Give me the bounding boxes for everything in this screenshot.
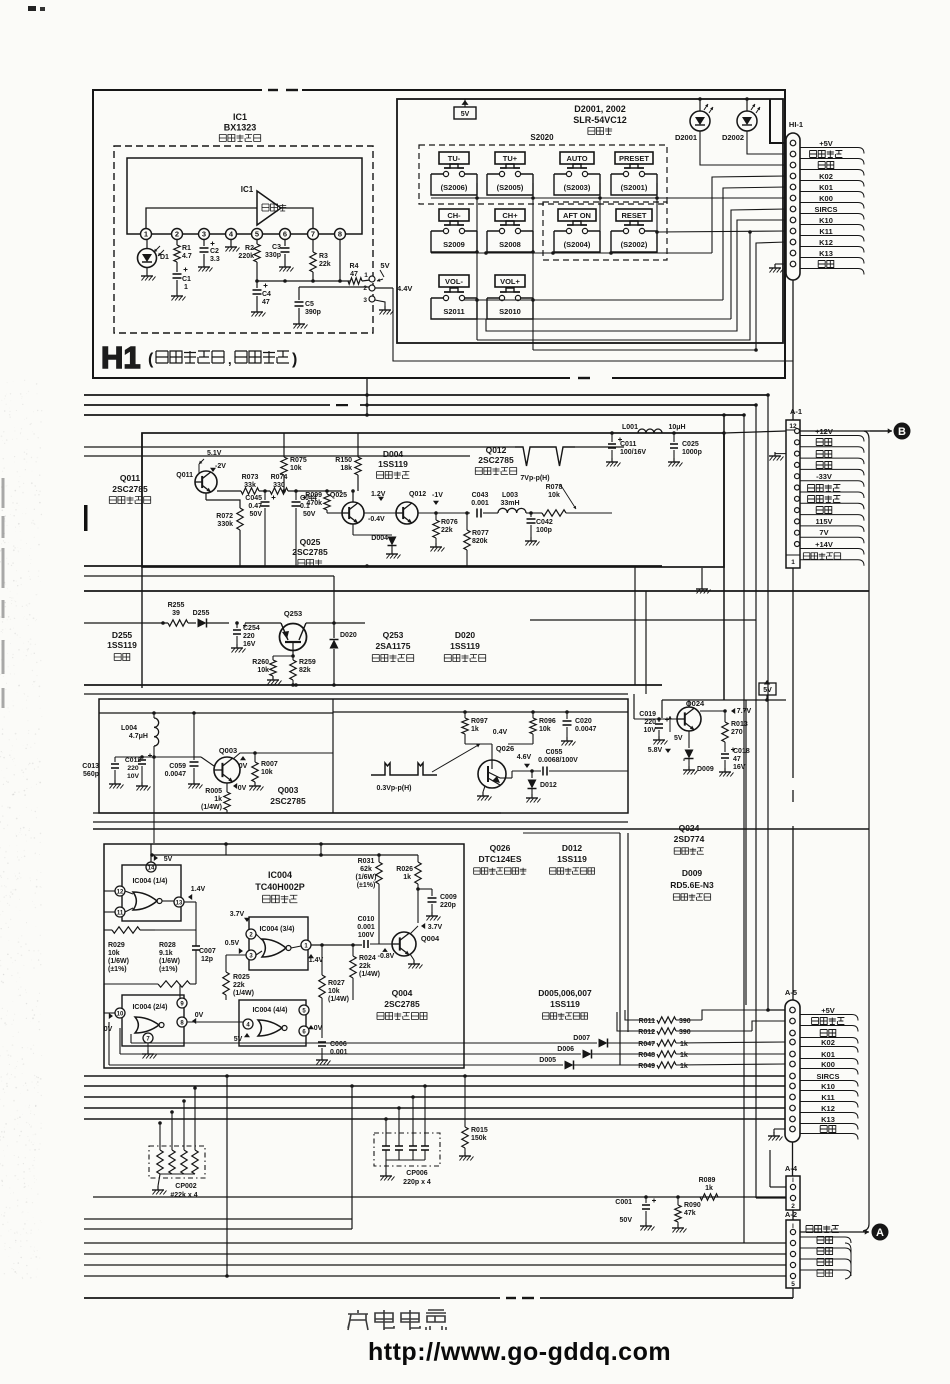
transistor Q025 [342, 502, 364, 524]
svg-text:K12: K12 [819, 238, 833, 247]
svg-text:16V: 16V [243, 641, 256, 648]
svg-text:R260: R260 [252, 659, 269, 666]
svg-text:5V: 5V [380, 261, 389, 270]
ground under C011 [611, 450, 613, 458]
svg-text:D255: D255 [112, 630, 133, 640]
svg-text:C3: C3 [272, 244, 281, 251]
wire LED D2001 to connector pin3 [700, 131, 786, 165]
ground under C012 [141, 766, 143, 782]
LED D2002 [737, 111, 757, 131]
node A circle [872, 1224, 889, 1241]
svg-text:(1/6W): (1/6W) [159, 958, 180, 965]
svg-text:470k: 470k [306, 500, 322, 507]
wire riser K02 [712, 176, 786, 253]
svg-text:10k: 10k [290, 465, 302, 472]
wire R4 to pin1 [362, 280, 370, 281]
svg-text:100/16V: 100/16V [620, 449, 646, 456]
wire Q003 collector [232, 757, 234, 759]
wire A-2 bottom [792, 1288, 794, 1298]
page border noise [28, 6, 36, 11]
svg-text:47: 47 [350, 271, 358, 278]
ground pin4 [230, 240, 232, 243]
button VOL+ [495, 275, 525, 287]
svg-text:C4: C4 [262, 291, 271, 298]
svg-text:47: 47 [733, 756, 741, 763]
svg-text:10k: 10k [261, 769, 273, 776]
svg-text:R255: R255 [168, 602, 185, 609]
wire VOL body bottom [477, 318, 731, 320]
extra bus taps left [84, 1087, 195, 1089]
svg-text:(1/4W): (1/4W) [233, 990, 254, 997]
svg-text:Q011: Q011 [176, 472, 193, 479]
wire R078 out [566, 512, 612, 514]
svg-text:L003: L003 [502, 492, 518, 499]
resistor R005 [226, 783, 228, 792]
wire x768b into A-4 pin1 [769, 1150, 771, 1187]
svg-text:1k: 1k [680, 1041, 688, 1048]
svg-text:2SC2785: 2SC2785 [270, 796, 306, 806]
svg-text:(1/4W): (1/4W) [328, 996, 349, 1003]
button AFT ON [558, 209, 596, 221]
svg-text:(S2001): (S2001) [621, 183, 648, 192]
CP006 bottom join [386, 1159, 425, 1161]
svg-text:A: A [876, 1227, 884, 1239]
svg-text:D007: D007 [573, 1035, 590, 1042]
resistor R007 [253, 751, 257, 755]
voltage 7.7V [731, 708, 735, 714]
voltage 0V emitter [233, 783, 237, 789]
wire column4 vertical [656, 183, 658, 252]
connector HI-1 pins [790, 140, 796, 146]
svg-text:9.1k: 9.1k [159, 950, 173, 957]
svg-text:Q004: Q004 [392, 988, 413, 998]
button TU+ [495, 152, 525, 164]
svg-text:-1V: -1V [432, 492, 443, 499]
5V up arrow [669, 716, 671, 732]
connector A-5 pins [790, 1007, 796, 1013]
svg-text:Q253: Q253 [284, 609, 302, 618]
svg-text:R089: R089 [699, 1177, 716, 1184]
wire R026 bottom to C009 [418, 888, 432, 890]
svg-text:1000p: 1000p [682, 449, 702, 456]
svg-text:10k: 10k [257, 667, 269, 674]
svg-text:10: 10 [117, 1012, 124, 1018]
svg-text:0.0047: 0.0047 [575, 726, 597, 733]
svg-text:R049: R049 [638, 1063, 655, 1070]
svg-text:1: 1 [144, 230, 148, 239]
gate IC004 2/4 [122, 995, 184, 1046]
bottom rail [84, 1297, 793, 1299]
wire x744 into A-2 beifen [743, 1242, 745, 1243]
wire amp input [146, 208, 257, 228]
svg-text:S2010: S2010 [499, 307, 521, 316]
svg-text:R024: R024 [359, 955, 376, 962]
svg-text:4.7μH: 4.7μH [129, 733, 148, 740]
svg-text:1k: 1k [680, 1052, 688, 1059]
bus K10 [84, 1085, 785, 1087]
svg-text:0.001: 0.001 [357, 924, 375, 931]
waveform 0.3Vpp [371, 763, 437, 775]
svg-text:330p: 330p [265, 252, 281, 259]
svg-text:S2011: S2011 [443, 307, 464, 316]
svg-text:R026: R026 [396, 866, 413, 873]
svg-text:L004: L004 [121, 725, 137, 732]
wire Q026 out [500, 777, 512, 779]
wire Q025 base [327, 512, 342, 514]
wire C5 to pin2 [299, 286, 370, 288]
waveform sync pulses [515, 447, 575, 466]
svg-text:R015: R015 [471, 1127, 488, 1134]
svg-text:0.0047: 0.0047 [165, 771, 187, 778]
ground under C059 [193, 768, 195, 780]
svg-text:R259: R259 [299, 659, 316, 666]
svg-text:330k: 330k [217, 521, 233, 528]
svg-text:220k: 220k [238, 253, 254, 260]
svg-text:(1/4W): (1/4W) [201, 804, 222, 811]
svg-text:D004: D004 [371, 535, 388, 542]
svg-text:S2020: S2020 [530, 133, 554, 142]
svg-text:5V: 5V [234, 1036, 243, 1043]
svg-text:1k: 1k [705, 1185, 713, 1192]
wire rail over Q253 [245, 622, 281, 624]
svg-text:RESET: RESET [621, 211, 646, 220]
ground under C3 [284, 254, 286, 263]
svg-text:R074: R074 [271, 474, 288, 481]
svg-text:Q004: Q004 [421, 934, 440, 943]
gate IC004 1/4 [122, 865, 181, 921]
gate IC004 3/4 [249, 917, 308, 970]
rail y712 right part [333, 711, 628, 713]
bus C001 line [93, 1196, 786, 1198]
resistor R011 row [625, 1010, 655, 1020]
vertical feed x756 [755, 405, 757, 1198]
svg-text:10k: 10k [108, 950, 120, 957]
svg-text:C013: C013 [82, 763, 99, 770]
capacitor C025 [673, 433, 675, 442]
svg-text:D020: D020 [340, 632, 357, 639]
riser stubs K lines [130, 1034, 132, 1043]
svg-text:R075: R075 [290, 457, 307, 464]
bus line y576 partial [84, 575, 334, 577]
svg-text:2SD774: 2SD774 [674, 834, 705, 844]
svg-text:DTC124ES: DTC124ES [479, 854, 522, 864]
connector HI-1 body [786, 133, 800, 280]
wire Q004 collector [410, 926, 418, 934]
svg-text:0.001: 0.001 [330, 1049, 348, 1056]
wire base line [370, 943, 392, 945]
resistor R076 [418, 512, 436, 514]
node B circle [894, 423, 911, 440]
svg-text:R025: R025 [233, 974, 250, 981]
wire VOL row link [463, 299, 723, 301]
svg-text:R048: R048 [638, 1052, 655, 1059]
ground under C018 [724, 760, 726, 768]
svg-text:IC1: IC1 [241, 185, 254, 194]
svg-text:R1: R1 [182, 245, 191, 252]
svg-text:-0.8V: -0.8V [378, 953, 395, 960]
svg-text:D2001: D2001 [675, 133, 697, 142]
svg-text:R4: R4 [350, 263, 359, 270]
svg-text:7: 7 [311, 230, 315, 239]
svg-text:390: 390 [679, 1018, 691, 1025]
svg-text:150k: 150k [471, 1135, 487, 1142]
inductor L001 [612, 432, 640, 434]
svg-text:CH+: CH+ [502, 211, 518, 220]
LED D2001 [690, 111, 710, 131]
svg-text:D009: D009 [682, 868, 703, 878]
diode D012 shunt [530, 769, 534, 773]
transistor Q012 [396, 502, 418, 524]
IC1 pins 1-8 [141, 229, 152, 240]
op-amp IC1 amplifier triangle [257, 191, 281, 225]
svg-text:(S2003): (S2003) [564, 183, 591, 192]
ground under R015 [464, 1148, 466, 1152]
wire A-1 bottom spine [792, 568, 794, 778]
svg-text:33mH: 33mH [500, 500, 519, 507]
svg-text:R005: R005 [205, 788, 222, 795]
svg-text:Q003: Q003 [278, 785, 299, 795]
svg-text:1: 1 [184, 284, 188, 291]
resistor R150 [357, 433, 359, 457]
svg-text:R029: R029 [108, 942, 125, 949]
vertical feed x724 [723, 415, 725, 700]
wire x756 into A-4 pin2 [756, 1197, 786, 1199]
svg-text:6: 6 [283, 230, 287, 239]
wire node [259, 490, 270, 492]
ground at HI-1 bottom [775, 263, 786, 265]
svg-text:0.0068/100V: 0.0068/100V [538, 757, 578, 764]
A-1 label rules [800, 436, 864, 442]
capacitor pack CP006 [374, 1133, 440, 1166]
svg-text:0.001: 0.001 [471, 500, 489, 507]
resistor R012 row [617, 1012, 655, 1031]
svg-text:A-2: A-2 [785, 1210, 797, 1219]
button AUTO [560, 152, 594, 164]
IC1 inner box [127, 158, 362, 234]
vertical x646 [645, 591, 647, 694]
bus line y456 [84, 455, 470, 457]
svg-text:13: 13 [176, 901, 183, 907]
bus lines bottom stack [84, 1218, 352, 1220]
svg-text:C006: C006 [330, 1041, 347, 1048]
svg-text:0.5V: 0.5V [225, 940, 240, 947]
ground under C1 [176, 280, 178, 292]
svg-text:2SC2785: 2SC2785 [292, 547, 328, 557]
wire K11 line [657, 231, 786, 232]
wire column2 vertical [532, 183, 534, 350]
resistor R259 [292, 656, 294, 660]
bus line y447 [84, 446, 515, 448]
svg-text:Q012: Q012 [409, 491, 426, 498]
node A arrow [800, 1231, 848, 1233]
resistor pack CP002 [149, 1146, 205, 1178]
wire into A-4 pin1 [768, 1010, 786, 1187]
svg-text:5V: 5V [164, 856, 173, 863]
wire H1 box drop [366, 378, 368, 415]
gate IC004 4/4 [239, 1000, 306, 1046]
svg-text:C043: C043 [472, 492, 489, 499]
resistor R096 [532, 712, 534, 718]
svg-text:R028: R028 [159, 942, 176, 949]
wire amp output [281, 208, 313, 228]
button CH- [439, 209, 469, 221]
svg-text:(S2005): (S2005) [497, 183, 524, 192]
long vertical x227 [226, 1076, 228, 1276]
svg-text:1SS119: 1SS119 [378, 459, 408, 469]
svg-text:TC40H002P: TC40H002P [255, 882, 305, 892]
svg-text:R011: R011 [639, 1018, 655, 1025]
svg-text:R3: R3 [319, 253, 328, 260]
bus caise [84, 1253, 786, 1255]
svg-text:3: 3 [202, 230, 206, 239]
svg-text:K13: K13 [819, 249, 833, 258]
wire Q026 emitter gnd [483, 786, 485, 792]
zener D009 [688, 731, 690, 748]
resistor R4 [348, 278, 362, 284]
resistor R1 [176, 240, 178, 245]
svg-text:4.7: 4.7 [182, 253, 192, 260]
wire pin1 out [311, 944, 362, 946]
wire C019 base [634, 718, 677, 720]
rail y855 [152, 854, 418, 856]
svg-text:C018: C018 [733, 748, 750, 755]
button VOL- [439, 275, 469, 287]
svg-text:R076: R076 [441, 519, 458, 526]
Q253 base down [292, 642, 294, 656]
wire LED D2002 to connector pin2 [747, 131, 786, 154]
svg-text:330: 330 [273, 482, 285, 489]
svg-text:C045: C045 [245, 495, 262, 502]
svg-text:270: 270 [731, 729, 743, 736]
svg-text:R078: R078 [546, 484, 563, 491]
svg-text:Q025: Q025 [300, 537, 321, 547]
svg-text:D2001, 2002: D2001, 2002 [574, 104, 626, 114]
svg-text:0.47: 0.47 [248, 503, 262, 510]
svg-text:IC004 (3/4): IC004 (3/4) [259, 926, 294, 933]
svg-text:BX1323: BX1323 [224, 123, 257, 133]
wire 5V drop to HI-1 pin1 [770, 99, 786, 143]
svg-text:7V: 7V [819, 528, 828, 537]
svg-text:220: 220 [243, 633, 255, 640]
transistor Q011 [195, 471, 217, 493]
svg-text:A-4: A-4 [785, 1164, 798, 1173]
resistor R078 [542, 510, 566, 516]
svg-text:D020: D020 [455, 630, 476, 640]
svg-text:D2002: D2002 [722, 133, 744, 142]
svg-text:Q026: Q026 [496, 744, 514, 753]
svg-text:12p: 12p [201, 956, 213, 963]
svg-text:CP002: CP002 [175, 1183, 197, 1190]
ground under R007 [254, 782, 256, 786]
svg-text:R150: R150 [335, 457, 352, 464]
diode D006 row K01 [120, 1053, 581, 1055]
wire row1 bottom to K00 pin [431, 197, 786, 199]
wire pin13 to C007 column [184, 901, 196, 903]
svg-text:10k: 10k [548, 492, 560, 499]
button PRESET [615, 152, 653, 164]
svg-text:HI-1: HI-1 [789, 120, 803, 129]
svg-text:(±1%): (±1%) [108, 966, 127, 973]
svg-text:D009: D009 [697, 766, 714, 773]
ground under C019 [658, 730, 660, 736]
watermark glyph guang [348, 1310, 368, 1330]
svg-text:5.1V: 5.1V [207, 450, 222, 457]
connector A-2 [786, 1220, 800, 1288]
resistor R029 zigzag [104, 929, 112, 931]
svg-text:C055: C055 [546, 749, 563, 756]
resistor R013 [722, 722, 728, 742]
bus to A-2 beifen [84, 1242, 744, 1244]
svg-text:Q024: Q024 [679, 823, 700, 833]
svg-text:7.7V: 7.7V [737, 708, 752, 715]
connector A-1 body [786, 420, 800, 568]
svg-text:K00: K00 [819, 194, 833, 203]
svg-text:K12: K12 [821, 1104, 835, 1113]
capacitor C006 [318, 1041, 326, 1043]
svg-text:3.7V: 3.7V [428, 924, 443, 931]
ground pin3 [375, 300, 385, 306]
HI-1 label rule lines [800, 148, 864, 154]
svg-text:K01: K01 [821, 1050, 835, 1059]
connector A-1 pins [795, 429, 800, 434]
svg-text:C2: C2 [210, 248, 219, 255]
A-5 label rules [800, 1015, 858, 1021]
resistor R073 [241, 488, 259, 494]
ground CP006 [385, 1172, 387, 1176]
svg-text:SIRCS: SIRCS [815, 205, 838, 214]
bus line y591 [84, 590, 869, 592]
svg-text:3.3: 3.3 [210, 256, 220, 263]
svg-text:5V: 5V [461, 111, 470, 118]
wire LED D2002 top [746, 99, 748, 111]
svg-text:1: 1 [791, 559, 795, 566]
wire riser K01 [723, 187, 786, 300]
diode D020 branch [333, 576, 335, 638]
svg-text:5: 5 [255, 230, 259, 239]
svg-text:7Vp-p(H): 7Vp-p(H) [520, 475, 549, 482]
svg-text:R073: R073 [242, 474, 259, 481]
svg-text:IC1: IC1 [233, 112, 247, 122]
svg-text:B: B [898, 426, 906, 438]
transistor Q003 [214, 757, 240, 783]
svg-text:R013: R013 [731, 721, 748, 728]
svg-text:47: 47 [262, 299, 270, 306]
voltage 3.7V Q004 [421, 923, 425, 929]
bus SIRCS [84, 1075, 785, 1077]
svg-text:82k: 82k [299, 667, 311, 674]
bus tuxiang [84, 1264, 786, 1266]
ground under C009 [431, 904, 433, 912]
svg-text:(S2004): (S2004) [564, 240, 591, 249]
svg-text:5.8V: 5.8V [648, 747, 663, 754]
svg-text:R090: R090 [684, 1202, 701, 1209]
transistor Q024 [677, 707, 701, 731]
svg-text:R096: R096 [539, 718, 556, 725]
svg-text:390: 390 [679, 1029, 691, 1036]
connector A-4 [786, 1176, 800, 1210]
bus line y566 [84, 565, 662, 567]
dashed box row2 [543, 202, 667, 260]
wire pin8 to pin4 [187, 1021, 243, 1023]
wire A-5 bottom to A-4 [792, 1142, 794, 1176]
wire rail to Q025 [288, 490, 342, 492]
svg-text:K00: K00 [821, 1060, 835, 1069]
wire R096 C020 rail [508, 743, 533, 745]
resistor R090 [676, 1195, 680, 1199]
ground under C001 [645, 1211, 647, 1222]
svg-text:1k: 1k [471, 726, 479, 733]
svg-text:IC004: IC004 [268, 870, 292, 880]
